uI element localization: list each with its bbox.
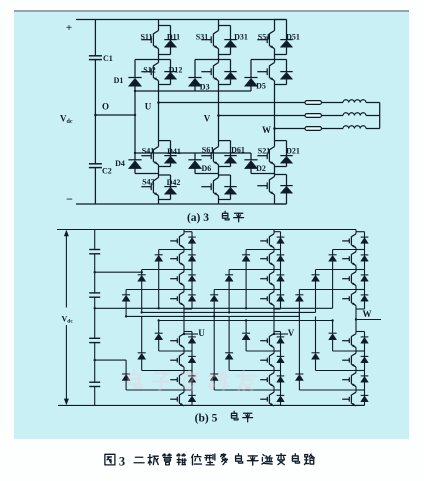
clamp diode upper col2 leg W	[316, 269, 357, 271]
clamp diode lower col1 leg V	[245, 321, 247, 334]
svg-text:D1: D1	[114, 76, 124, 85]
IGBT S42 with diode D42	[159, 174, 171, 176]
IGBT unit W3 (b) with antiparallel diode	[356, 289, 365, 291]
wire top dc rail (b)	[57, 229, 356, 231]
wire phase segment W	[355, 309, 357, 332]
wire coil to star point phase W	[366, 128, 380, 130]
svg-text:S42: S42	[142, 178, 154, 187]
svg-text:3: 3	[119, 455, 125, 469]
svg-text:D61: D61	[231, 146, 245, 155]
caption (a) glyphs: 电平	[222, 211, 229, 220]
capacitor C1 (b)	[89, 249, 100, 251]
svg-text:D2: D2	[256, 164, 266, 173]
IGBT unit V2 (b) with antiparallel diode	[274, 269, 281, 271]
wire phase W stub (b)	[356, 319, 381, 321]
wire top dc rail (+)	[76, 19, 287, 21]
IGBT unit W2 (b) with antiparallel diode	[356, 269, 365, 271]
wire upper clamp rail	[135, 90, 251, 92]
IGBT S52 with diode D52	[275, 84, 287, 86]
wire clamp mid leg 1 (O tie)	[134, 91, 136, 153]
IGBT unit W6 (b) with antiparallel diode	[356, 370, 365, 372]
Vdc dimension arrow	[65, 232, 67, 308]
IGBT S21 with diode D21	[275, 140, 287, 142]
svg-text:S61: S61	[202, 146, 214, 155]
IGBT unit W5 (b) with antiparallel diode	[356, 331, 365, 333]
wire phase segment U	[183, 309, 185, 332]
IGBT unit W4 (b) with antiparallel diode	[356, 308, 365, 310]
clamp diode lower col1 leg U	[158, 321, 160, 334]
wire coil to star point phase V	[366, 115, 380, 117]
IGBT unit V5 (b) with antiparallel diode	[274, 331, 281, 333]
IGBT unit U7 (b) with antiparallel diode	[184, 389, 192, 391]
IGBT unit U3 (b) with antiparallel diode	[184, 289, 192, 291]
capacitor C2 (b)	[89, 292, 100, 294]
inductor load phase V	[343, 113, 366, 116]
IGBT S61 with diode D61	[219, 140, 231, 142]
IGBT unit W7 (b) with antiparallel diode	[356, 389, 365, 391]
wire bottom dc rail (b)	[58, 404, 365, 406]
inductor load phase W	[343, 126, 366, 129]
clamp diode D2	[250, 153, 252, 160]
wire O midpoint line	[95, 114, 135, 116]
wire bottom dc rail (-)	[76, 203, 287, 205]
clamp diode upper col2 leg U	[142, 269, 184, 271]
clamp diode upper col3 leg W	[299, 289, 356, 291]
svg-text:U: U	[145, 101, 152, 111]
wire phase V stub (b)	[274, 333, 288, 335]
svg-text:W: W	[262, 125, 271, 135]
wire J2 node leg 1	[135, 173, 159, 175]
svg-text:W: W	[363, 309, 372, 319]
wire J2 node leg 2	[195, 173, 219, 175]
IGBT unit W1 (b) with antiparallel diode	[355, 230, 357, 232]
clamp diode lower col2 leg W	[315, 316, 317, 352]
wire N1 junction feeder	[95, 359, 126, 361]
clamp diode D6	[194, 153, 196, 160]
IGBT S11 with diode D11	[158, 20, 160, 26]
wire J2 node leg 3	[251, 173, 275, 175]
capacitor C3 (b)	[89, 337, 100, 339]
svg-text:D41: D41	[167, 147, 181, 156]
svg-text:S11: S11	[140, 33, 152, 42]
clamp diode D3	[194, 60, 196, 78]
clamp diode lower col3 leg V	[213, 312, 215, 374]
svg-text:+: +	[66, 22, 72, 34]
svg-text:S21: S21	[258, 146, 270, 155]
IGBT S31 with diode D31	[218, 20, 220, 26]
wire lower clamp rail	[135, 152, 251, 154]
IGBT unit V7 (b) with antiparallel diode	[274, 389, 281, 391]
wire J1 node leg 3	[251, 59, 287, 61]
svg-text:D12: D12	[169, 65, 183, 74]
IGBT S22 with diode D22	[275, 174, 287, 176]
svg-text:(a) 3: (a) 3	[187, 212, 209, 224]
clamp diode lower col1 leg W	[332, 321, 334, 334]
clamp diode upper col1 leg V	[246, 249, 274, 251]
svg-text:D11: D11	[167, 33, 180, 42]
IGBT unit U4 (b) with antiparallel diode	[184, 308, 192, 310]
wire load link phase W	[322, 128, 344, 130]
wire phase U stub (b)	[184, 333, 198, 335]
IGBT unit V6 (b) with antiparallel diode	[274, 370, 281, 372]
capacitor C1	[89, 55, 102, 57]
svg-text:D3: D3	[200, 82, 210, 91]
clamp diode D1	[134, 60, 136, 78]
IGBT unit U5 (b) with antiparallel diode	[184, 331, 192, 333]
clamp diode upper col2 leg V	[229, 269, 274, 271]
IGBT unit V3 (b) with antiparallel diode	[274, 289, 281, 291]
resistor load phase V	[305, 114, 322, 118]
svg-text:D51: D51	[286, 33, 300, 42]
capacitor C2	[89, 163, 102, 165]
clamp diode lower col2 leg V	[228, 316, 230, 352]
svg-text:S41: S41	[142, 146, 154, 155]
wire phase U output	[159, 102, 306, 104]
wire leg 2 main segments	[218, 55, 220, 60]
svg-text:−: −	[66, 192, 73, 206]
clamp diode upper col1 leg U	[159, 249, 184, 251]
IGBT unit U2 (b) with antiparallel diode	[184, 269, 192, 271]
IGBT S51 with diode D51	[274, 20, 276, 26]
wire phase segment V	[273, 309, 275, 332]
svg-text:D42: D42	[167, 178, 181, 187]
wire coil to star point phase U	[366, 102, 380, 104]
inductor load phase U	[343, 100, 366, 103]
IGBT unit V4 (b) with antiparallel diode	[274, 308, 281, 310]
resistor load phase U	[305, 101, 322, 105]
clamp diode lower col2 leg U	[141, 316, 143, 352]
IGBT S32 with diode D32	[219, 84, 231, 86]
wire J1 node leg 1	[135, 59, 171, 61]
IGBT unit U6 (b) with antiparallel diode	[184, 370, 192, 372]
wire load link phase V	[322, 115, 344, 117]
svg-text:C1: C1	[103, 54, 113, 63]
main caption: 图3 二极管箝位型多电平逆变电路	[105, 454, 115, 465]
wire phase W output	[275, 128, 306, 130]
wire J1 node leg 2	[195, 59, 231, 61]
caption (b) glyphs: 电平	[231, 411, 238, 420]
svg-text:D31: D31	[234, 33, 248, 42]
svg-text:V: V	[288, 328, 295, 338]
wire P1 junction feeder	[95, 271, 142, 273]
clamp diode lower col3 leg U	[125, 360, 127, 374]
IGBT S41 with diode D41	[159, 140, 171, 142]
svg-text:S12: S12	[143, 65, 155, 74]
svg-text:S31: S31	[196, 33, 208, 42]
svg-text:D21: D21	[286, 146, 300, 155]
IGBT unit V8 (b) with antiparallel diode	[274, 404, 281, 406]
wire star point	[379, 103, 381, 129]
svg-text:S51: S51	[258, 33, 270, 42]
clamp diode upper col3 leg V	[214, 289, 274, 291]
clamp diode D4	[134, 153, 136, 160]
resistor load phase W	[305, 127, 322, 131]
wire leg 3 main segments	[274, 55, 276, 60]
capacitor C4 (b)	[89, 381, 100, 383]
IGBT unit W8 (b) with antiparallel diode	[356, 404, 365, 406]
IGBT S62 with diode D62	[219, 174, 231, 176]
IGBT unit V1 (b) with antiparallel diode	[273, 230, 275, 232]
wire load link phase U	[322, 102, 344, 104]
watermark	[129, 370, 142, 387]
svg-text:D6: D6	[202, 164, 212, 173]
IGBT unit U8 (b) with antiparallel diode	[184, 404, 192, 406]
wire phase V output	[219, 115, 306, 117]
IGBT S12 with diode D12	[159, 84, 171, 86]
svg-text:V: V	[204, 114, 211, 124]
wire junction distribution rails (b)	[95, 307, 333, 309]
clamp diode upper col3 leg U	[126, 289, 184, 291]
junction dots (b)	[158, 307, 160, 309]
svg-text:D5: D5	[256, 82, 266, 91]
svg-text:C2: C2	[102, 167, 112, 176]
svg-text:(b) 5: (b) 5	[195, 413, 218, 425]
svg-text:D4: D4	[115, 159, 125, 168]
svg-text:U: U	[198, 328, 205, 338]
IGBT unit U1 (b) with antiparallel diode	[183, 230, 185, 232]
panel top border	[14, 10, 409, 12]
clamp diode lower col3 leg W	[298, 312, 300, 374]
svg-text:O: O	[102, 102, 109, 112]
clamp diode upper col1 leg W	[333, 249, 356, 251]
wire leg 1 main segments	[158, 55, 160, 60]
clamp diode D5	[250, 60, 252, 78]
wire left dc-link rail	[94, 20, 96, 56]
wire dc-link capacitor rail (b)	[94, 230, 96, 250]
